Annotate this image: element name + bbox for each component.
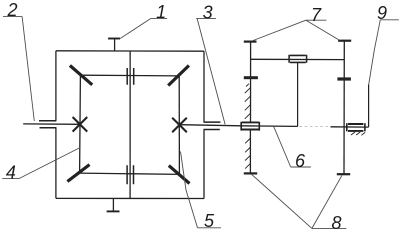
right sprocket bbox=[337, 77, 351, 80]
leader 1 bbox=[120, 18, 151, 38]
left screw bottom cap bbox=[244, 172, 257, 174]
gearbox housing right wall upper bbox=[203, 51, 205, 122]
underline 2 bbox=[3, 16, 22, 18]
svg-text:4: 4 bbox=[6, 162, 16, 182]
svg-text:7: 7 bbox=[311, 5, 322, 25]
svg-text:8: 8 bbox=[332, 213, 342, 232]
svg-text:3: 3 bbox=[203, 2, 213, 22]
underline 8 bbox=[312, 227, 346, 229]
inner right vertical shaft bbox=[178, 76, 180, 174]
leader 9 bbox=[369, 20, 381, 85]
right screw bottom cap bbox=[337, 173, 350, 175]
svg-text:9: 9 bbox=[377, 3, 387, 23]
leader 3 bbox=[197, 19, 225, 125]
bearing cross right bbox=[172, 118, 187, 133]
inner gear frame top shaft bbox=[80, 74, 179, 77]
bevel gear top-right bbox=[168, 66, 189, 86]
inner left vertical shaft bbox=[79, 75, 82, 173]
hatching left screw upper group bbox=[245, 84, 251, 119]
vertical link stem to axis bbox=[297, 63, 299, 127]
breather symbol stem (pos.1) bbox=[114, 39, 116, 51]
left screw top cap bbox=[244, 40, 257, 42]
underline 6 bbox=[291, 166, 311, 168]
breather cap bbox=[108, 38, 120, 40]
drain plug cap bbox=[107, 210, 120, 212]
wall gland lower-right bbox=[204, 129, 220, 131]
hatching left screw lower group bbox=[245, 138, 251, 169]
right nut symbol horizontals bbox=[348, 124, 363, 131]
right screw shaft bbox=[343, 41, 345, 175]
svg-text:2: 2 bbox=[7, 0, 18, 20]
central vertical shaft bbox=[129, 51, 131, 199]
underline 1 bbox=[151, 17, 167, 19]
drain plug stem bbox=[112, 199, 114, 211]
left sprocket bbox=[244, 76, 258, 79]
svg-text:5: 5 bbox=[204, 211, 215, 231]
leader 8 left bbox=[252, 174, 312, 228]
bevel gear bottom-left bbox=[67, 165, 89, 182]
bevel gear bottom-right bbox=[169, 166, 190, 184]
left screw shaft bbox=[249, 42, 251, 174]
gearbox housing top edge bbox=[56, 50, 204, 52]
bevel gear top-left bbox=[70, 66, 92, 85]
coupling bars bottom of central shaft bbox=[127, 165, 133, 184]
wall gland upper-right bbox=[204, 121, 221, 123]
gearbox housing bottom edge bbox=[56, 197, 204, 199]
hidden axis dashed bbox=[300, 126, 330, 128]
wall gland lower-left bbox=[40, 127, 57, 129]
underline 3 bbox=[196, 17, 216, 19]
hatching below right nut bbox=[351, 132, 365, 135]
leader 8 right bbox=[312, 175, 342, 228]
left nut symbol bars bbox=[241, 122, 259, 131]
axis right solid bbox=[331, 126, 369, 128]
leader 7 right bbox=[306, 20, 340, 40]
gearbox housing left wall lower bbox=[55, 128, 57, 199]
leader 5 bbox=[181, 152, 198, 228]
inner gear frame bottom shaft bbox=[80, 173, 181, 174]
leader 4 bbox=[19, 148, 80, 179]
underline 4 bbox=[2, 178, 19, 180]
coupling bars top of central shaft bbox=[127, 68, 134, 85]
leader 2 bbox=[22, 17, 34, 121]
output shaft right bbox=[180, 125, 298, 127]
chain drive connecting line bbox=[251, 58, 345, 60]
leader 6 bbox=[274, 127, 291, 167]
wall gland upper-left bbox=[39, 120, 56, 122]
left nut symbol horizontals bbox=[242, 122, 259, 129]
underline 7 bbox=[306, 19, 327, 21]
bearing cross left bbox=[73, 117, 88, 132]
gearbox housing right wall lower bbox=[203, 130, 205, 199]
svg-text:6: 6 bbox=[295, 151, 306, 171]
svg-text:1: 1 bbox=[156, 2, 166, 22]
input shaft left bbox=[23, 123, 80, 125]
chain link symbol horizontals bbox=[290, 55, 306, 62]
right nut symbol bars bbox=[347, 123, 365, 131]
pointer rod (pos.9) bbox=[368, 85, 370, 128]
gearbox housing left wall upper bbox=[55, 51, 57, 121]
underline 5 bbox=[198, 227, 222, 229]
leader 7 left bbox=[252, 20, 306, 41]
right screw top cap bbox=[338, 40, 351, 42]
chain link symbol verticals bbox=[289, 55, 307, 63]
underline 9 bbox=[380, 19, 399, 21]
